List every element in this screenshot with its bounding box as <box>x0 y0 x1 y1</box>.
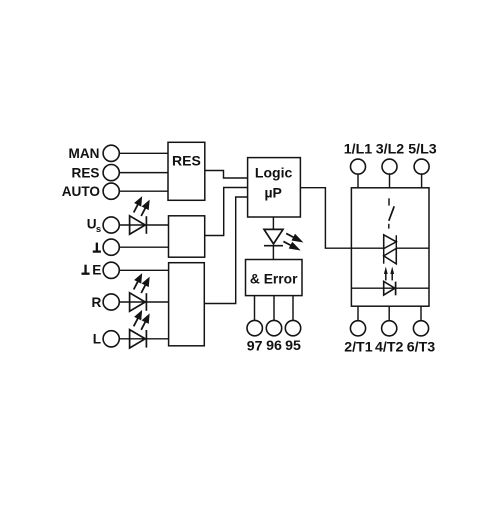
svg-text:6/T3: 6/T3 <box>407 339 435 355</box>
svg-text:4/T2: 4/T2 <box>375 339 403 355</box>
node AUTO: terminal circle <box>103 183 119 199</box>
wire stub terminal 96 <box>273 296 275 321</box>
block AND-Error <box>246 260 303 296</box>
wire input block to Logic <box>205 188 248 236</box>
node GND: terminal circle <box>103 239 119 255</box>
wire stub 4/T2 <box>388 306 390 321</box>
LED D3 emission arrows <box>134 312 149 330</box>
node MAN: terminal circle <box>103 145 119 161</box>
svg-text:AUTO: AUTO <box>62 184 100 199</box>
svg-text:2/T1: 2/T1 <box>344 339 372 355</box>
optocoupler arrow 2 (up) <box>390 267 394 274</box>
node 6/T3: terminal circle <box>413 321 428 336</box>
node 95: terminal circle <box>285 320 300 335</box>
wire GND to input block <box>119 246 168 248</box>
label GND symbol (perpendicular) <box>93 243 101 252</box>
LED D2 (R indicator) <box>130 293 147 311</box>
svg-text:Logic: Logic <box>255 164 293 180</box>
wire RES box to Logic <box>205 171 248 179</box>
wire stub 1/L1 <box>357 174 359 188</box>
wire stub terminal 97 <box>254 296 256 321</box>
svg-text:µP: µP <box>264 184 281 200</box>
block Logic uP <box>248 158 301 217</box>
node 2/T1: terminal circle <box>350 321 365 336</box>
wire R to control block <box>119 301 168 303</box>
svg-text:96: 96 <box>266 338 282 354</box>
LED D3 (L indicator) <box>130 330 147 348</box>
node RES: terminal circle <box>103 165 119 181</box>
wire stub 5/L3 <box>421 174 423 188</box>
LED D4 cathode bar <box>264 245 283 247</box>
LED D1 emission arrows <box>134 198 149 216</box>
label GND-E symbol (perpendicular) <box>82 265 90 274</box>
wire MAN to RES box <box>119 152 168 154</box>
LED D1 (Us indicator) <box>130 216 147 234</box>
svg-text:95: 95 <box>285 338 301 354</box>
block U2 (control input) <box>169 263 205 346</box>
switch S1 blade <box>389 206 394 221</box>
svg-text:RES: RES <box>172 152 201 168</box>
block power stage <box>351 188 429 306</box>
wire stub 2/T1 <box>357 306 359 321</box>
node 5/L3: terminal circle <box>414 159 429 174</box>
triac Q1 upper triangle <box>384 235 397 249</box>
switch S1 upper lead <box>388 198 390 205</box>
diode D5 triangle <box>384 281 395 295</box>
wire Us to input block <box>119 224 168 226</box>
wire stub terminal 95 <box>292 296 294 321</box>
svg-text:1/L1: 1/L1 <box>344 142 372 158</box>
node GND-E: terminal circle <box>103 262 119 278</box>
LED D2 emission arrows <box>134 275 149 293</box>
node 3/L2: terminal circle <box>382 159 397 174</box>
triac Q1 lower triangle <box>384 248 397 264</box>
svg-text:5/L3: 5/L3 <box>408 142 436 158</box>
wire RES to RES box <box>119 172 168 174</box>
triac Q1 left rail <box>383 235 385 264</box>
block U1 (supply input) <box>169 216 205 257</box>
node R: terminal circle <box>103 294 119 310</box>
wire stub 6/T3 <box>420 306 422 321</box>
node L: terminal circle <box>103 331 119 347</box>
svg-text:L: L <box>93 332 101 347</box>
node 1/L1: terminal circle <box>351 159 366 174</box>
LED D4 (error, pointing down) <box>264 229 283 244</box>
wire triac to box right edge <box>396 247 429 249</box>
wire stub 3/L2 <box>389 174 391 188</box>
wire Logic to power block <box>300 188 383 249</box>
svg-text:RES: RES <box>72 166 100 181</box>
svg-text:& Error: & Error <box>250 271 298 286</box>
node 4/T2: terminal circle <box>382 321 397 336</box>
node Us: terminal circle <box>103 217 119 233</box>
svg-text:R: R <box>91 295 101 310</box>
diode D5 cathode bar <box>395 282 397 296</box>
node 96: terminal circle <box>266 320 281 335</box>
node 97: terminal circle <box>247 320 262 335</box>
switch S1 lower lead <box>388 224 390 229</box>
svg-text:E: E <box>92 262 101 277</box>
svg-text:s: s <box>96 224 101 235</box>
wire GND-E to control block <box>119 269 168 271</box>
triac Q1 right rail <box>395 235 397 264</box>
svg-text:MAN: MAN <box>69 146 100 161</box>
optocoupler arrow 1 (up) <box>384 267 388 274</box>
wire Logic to error LED <box>272 217 274 229</box>
LED D4 emission arrows <box>283 233 301 249</box>
wire control block to Logic <box>204 197 247 304</box>
block RES <box>168 142 205 200</box>
wire error LED to AND-Error block <box>272 246 274 260</box>
svg-text:97: 97 <box>247 338 263 354</box>
wire L to control block <box>119 338 168 340</box>
wire diode row <box>351 287 429 289</box>
svg-text:3/L2: 3/L2 <box>376 142 404 158</box>
wire AUTO to RES box <box>119 190 168 192</box>
